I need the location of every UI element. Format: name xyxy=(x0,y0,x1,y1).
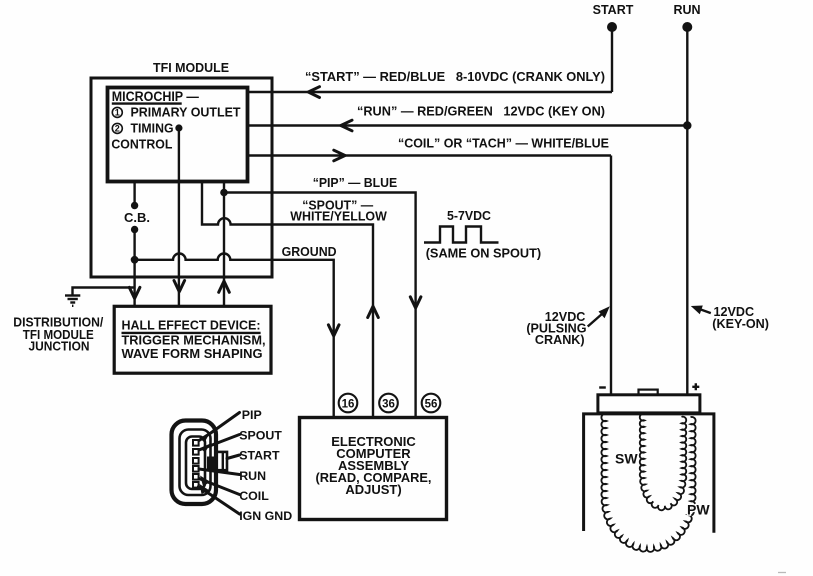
wire GROUND from C.B. junction to computer pin 16 xyxy=(135,253,334,418)
pin 2 label TIMING xyxy=(112,121,173,136)
wire pin leader START xyxy=(227,455,240,459)
connector J1 cavity xyxy=(186,437,205,490)
ignition coil cap xyxy=(598,395,700,413)
svg-text:ADJUST): ADJUST) xyxy=(345,482,401,497)
wire START vertical drop xyxy=(611,27,613,92)
svg-text:SW: SW xyxy=(615,451,638,467)
wire "START" RED/BLUE xyxy=(248,87,612,98)
svg-text:WAVE FORM SHAPING: WAVE FORM SHAPING xyxy=(122,347,263,361)
svg-text:CONTROL: CONTROL xyxy=(111,136,172,151)
IC U1 microchip box xyxy=(108,88,248,182)
svg-text:COIL: COIL xyxy=(239,489,269,503)
arrowhead down on GROUND drop xyxy=(328,325,339,336)
wire pin leader SPOUT xyxy=(199,435,240,451)
svg-text:MICROCHIP —: MICROCHIP — xyxy=(112,89,199,104)
svg-text:SPOUT: SPOUT xyxy=(239,428,282,442)
electronic computer assembly box xyxy=(300,418,447,520)
inductor SW secondary winding xyxy=(601,414,695,552)
wire to chassis ground xyxy=(73,288,135,296)
connector pins (6) xyxy=(193,440,199,488)
svg-text:TIMING: TIMING xyxy=(131,121,174,136)
svg-text:PIP: PIP xyxy=(242,408,262,422)
svg-text:GROUND: GROUND xyxy=(282,244,337,259)
pin 1 label PRIMARY OUTLET xyxy=(112,105,240,120)
label HALL EFFECT DEVICE xyxy=(122,319,266,362)
svg-text:CRANK): CRANK) xyxy=(535,333,585,347)
label plus terminal xyxy=(692,383,699,390)
wire pin leader PIP xyxy=(199,413,240,441)
pin 56 xyxy=(422,394,441,413)
label ELECTRONIC COMPUTER ASSEMBLY xyxy=(316,434,432,497)
label MICROCHIP xyxy=(112,89,199,104)
svg-text:(SAME ON SPOUT): (SAME ON SPOUT) xyxy=(426,246,542,261)
label 12VDC KEY-ON xyxy=(712,305,769,331)
svg-text:RUN: RUN xyxy=(239,469,266,483)
node PIP junction xyxy=(220,189,228,197)
wire COIL drop to coil - terminal xyxy=(610,156,612,396)
svg-text:2: 2 xyxy=(115,124,120,134)
ignition coil case xyxy=(584,414,714,533)
square wave signal xyxy=(424,227,499,243)
svg-text:“START” — RED/BLUE 8-10VDC (: “START” — RED/BLUE 8-10VDC (CRANK ONLY) xyxy=(305,69,605,84)
svg-text:PRIMARY OUTLET: PRIMARY OUTLET xyxy=(131,105,241,120)
label 12VDC PULSING CRANK xyxy=(526,310,586,347)
node RUN (battery feed) xyxy=(673,3,700,32)
svg-text:16: 16 xyxy=(342,398,355,410)
wire timing output down to hall box xyxy=(178,128,180,306)
wire RUN vertical drop to coil + terminal xyxy=(686,27,688,395)
arrowhead down on timing wire xyxy=(174,281,185,292)
wire PIP from microchip down to hall box xyxy=(223,181,225,306)
svg-text:1: 1 xyxy=(115,108,120,118)
svg-text:START: START xyxy=(239,449,280,463)
svg-text:“RUN” — RED/GREEN 12VDC (KEY: “RUN” — RED/GREEN 12VDC (KEY ON) xyxy=(357,104,605,119)
node ground junction xyxy=(131,256,139,264)
svg-text:56: 56 xyxy=(425,398,438,410)
wire SPOUT from microchip xyxy=(202,181,373,418)
svg-text:JUNCTION: JUNCTION xyxy=(29,340,90,354)
TFI MODULE outer box xyxy=(91,78,272,277)
node C.B. bottom dot xyxy=(131,226,138,233)
coil cap nipple xyxy=(639,390,658,395)
connector key tab xyxy=(207,452,227,471)
arrowhead down on C.B. wire xyxy=(129,287,140,298)
wire C.B. upper segment xyxy=(133,181,135,205)
arrow to key-on wire xyxy=(691,306,711,315)
svg-text:“COIL” OR “TACH” — WHITE/BLUE: “COIL” OR “TACH” — WHITE/BLUE xyxy=(398,135,609,150)
svg-text:HALL EFFECT DEVICE:: HALL EFFECT DEVICE: xyxy=(122,319,261,333)
scan artifact dash xyxy=(778,572,786,574)
node START (battery feed) xyxy=(593,3,634,32)
wire pin leader IGN GND xyxy=(199,487,240,515)
label DISTRIBUTION/TFI MODULE JUNCTION xyxy=(13,316,103,354)
arrowhead up on PIP vertical xyxy=(219,281,230,292)
wire pin leader COIL xyxy=(199,479,240,495)
svg-text:START: START xyxy=(593,3,634,17)
svg-text:WHITE/YELLOW: WHITE/YELLOW xyxy=(290,209,387,224)
svg-text:PW: PW xyxy=(687,502,710,518)
node timing output dot xyxy=(175,124,182,131)
node RUN junction xyxy=(683,121,691,129)
wire PIP to computer pin 56 xyxy=(224,193,416,419)
arrowhead up on SPOUT wire xyxy=(368,306,379,317)
svg-text:(KEY-ON): (KEY-ON) xyxy=(712,317,769,331)
svg-text:C.B.: C.B. xyxy=(124,210,150,225)
svg-text:36: 36 xyxy=(382,398,395,410)
svg-text:IGN GND: IGN GND xyxy=(239,509,292,523)
inductor PW primary winding xyxy=(640,414,686,511)
connector J1 inner shell xyxy=(180,430,211,496)
svg-text:TRIGGER MECHANISM,: TRIGGER MECHANISM, xyxy=(122,334,266,348)
wire C.B. lower segment to hall box xyxy=(133,230,135,307)
pin 16 xyxy=(339,394,358,413)
svg-text:TFI MODULE: TFI MODULE xyxy=(153,60,229,75)
svg-text:RUN: RUN xyxy=(673,3,700,17)
arrowhead down on PIP drop xyxy=(410,297,421,308)
ground xyxy=(65,296,80,306)
hall effect device box xyxy=(114,306,271,373)
arrow to pulsing wire xyxy=(588,306,610,326)
connector J1 shell xyxy=(172,421,217,505)
svg-text:“PIP” — BLUE: “PIP” — BLUE xyxy=(313,175,398,190)
wire "COIL"/"TACH" WHITE/BLUE xyxy=(248,150,611,161)
svg-text:5-7VDC: 5-7VDC xyxy=(447,208,492,223)
label minus terminal xyxy=(599,386,606,388)
wire "RUN" RED/GREEN xyxy=(248,120,688,131)
node C.B. top dot xyxy=(131,202,138,209)
pin 36 xyxy=(379,394,398,413)
wire pin leader RUN xyxy=(199,469,240,475)
